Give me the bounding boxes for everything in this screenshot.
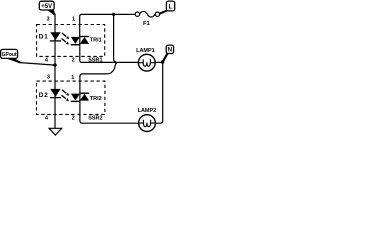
svg-text:D1: D1 bbox=[39, 34, 49, 41]
svg-text:2: 2 bbox=[72, 57, 75, 63]
svg-text:SSR2: SSR2 bbox=[88, 116, 102, 122]
svg-text:2: 2 bbox=[72, 116, 75, 122]
svg-text:LAMP2: LAMP2 bbox=[138, 108, 157, 114]
svg-text:LAMP1: LAMP1 bbox=[136, 48, 155, 54]
svg-text:N: N bbox=[168, 48, 172, 54]
svg-text:TRI2: TRI2 bbox=[90, 96, 102, 102]
svg-text:+5V: +5V bbox=[41, 4, 52, 10]
svg-text:3: 3 bbox=[46, 16, 49, 22]
svg-text:4: 4 bbox=[45, 116, 49, 122]
svg-text:SSR1: SSR1 bbox=[88, 58, 102, 64]
svg-text:3: 3 bbox=[47, 75, 50, 81]
svg-text:GPout: GPout bbox=[2, 52, 17, 58]
svg-text:1: 1 bbox=[71, 75, 74, 81]
svg-text:TRI1: TRI1 bbox=[90, 37, 102, 43]
svg-text:L: L bbox=[169, 3, 173, 10]
svg-text:1: 1 bbox=[72, 17, 75, 23]
svg-text:4: 4 bbox=[45, 57, 49, 63]
svg-text:F1: F1 bbox=[143, 21, 151, 27]
svg-text:D2: D2 bbox=[39, 92, 49, 99]
